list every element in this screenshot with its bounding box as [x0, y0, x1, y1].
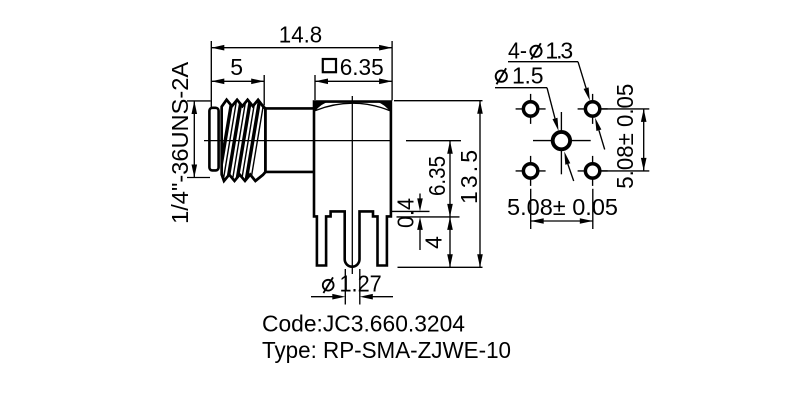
dimension 4 [398, 217, 483, 267]
centerline horizontal axis [204, 140, 391, 142]
dimension 5 [211, 54, 264, 106]
svg-text:5.08± 0.05: 5.08± 0.05 [507, 194, 618, 220]
svg-text:1.5: 1.5 [512, 63, 544, 89]
dimension 6.35 right [406, 141, 461, 217]
svg-text:6.35: 6.35 [340, 54, 384, 80]
svg-text:4-: 4- [508, 38, 527, 64]
svg-text:4: 4 [421, 236, 447, 249]
dimension 14.8 [211, 22, 392, 108]
thread [218, 97, 265, 184]
dimension 0.4 [392, 194, 460, 251]
body top dome arc [315, 103, 390, 110]
dimension 13.5 [394, 101, 483, 268]
body top right chamfer [374, 101, 391, 112]
hole bottom-right [578, 156, 608, 186]
svg-text:5: 5 [230, 54, 243, 80]
hole top-right [578, 94, 608, 124]
svg-text:5.08± 0.05: 5.08± 0.05 [612, 84, 638, 189]
hole bottom-left [516, 156, 546, 186]
svg-text:Type: RP-SMA-ZJWE-10: Type: RP-SMA-ZJWE-10 [262, 337, 511, 363]
dimension 5.08 bottom [507, 189, 618, 229]
svg-text:1.27: 1.27 [340, 271, 382, 297]
thread callout 1/4-36UNS-2A [167, 61, 211, 224]
dimension dia 1.27 [311, 269, 393, 305]
leader 4-dia1.3 [508, 38, 605, 150]
dimension 5.08 right [601, 84, 650, 189]
svg-text:Code:JC3.660.3204: Code:JC3.660.3204 [262, 311, 465, 337]
footprint view [495, 38, 649, 230]
centerline body vertical [351, 96, 353, 274]
svg-text:0.4: 0.4 [393, 198, 419, 228]
body and pins outline [314, 102, 391, 267]
svg-text:1/4"-36UNS-2A: 1/4"-36UNS-2A [167, 61, 193, 224]
hole top-left [516, 94, 546, 124]
svg-text:1.3: 1.3 [545, 38, 573, 64]
svg-text:6.35: 6.35 [424, 156, 450, 196]
hole center [533, 112, 591, 174]
neck top [265, 107, 314, 110]
neck bottom [265, 171, 314, 174]
svg-text:14.8: 14.8 [279, 22, 322, 48]
connector cap [209, 108, 218, 171]
leader dia1.5 [495, 63, 574, 181]
svg-text:13.5: 13.5 [456, 150, 482, 204]
body top left chamfer [314, 101, 331, 112]
dimension square 6.35 [315, 54, 392, 100]
